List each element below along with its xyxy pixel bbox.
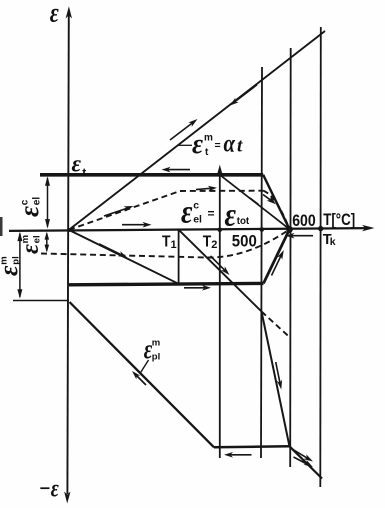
node dot at Tk: [318, 226, 323, 231]
svg-text:pl: pl: [10, 256, 21, 264]
dash arrow down-right on D1 descent: [263, 195, 276, 205]
node dot at origin: [67, 228, 71, 232]
arrow left below bottom line: [224, 452, 252, 458]
arrowhead T2-vertical top: [217, 165, 223, 176]
svg-text:m: m: [20, 235, 31, 243]
svg-text:T[°C]: T[°C]: [323, 210, 355, 229]
arrow up-left on lower-left diagonal: [132, 371, 146, 385]
svg-text:ε: ε: [17, 243, 44, 254]
steep line from junction down to bottom corner: [262, 312, 290, 447]
arrow left below axis near 600: [286, 233, 314, 239]
svg-text:1: 1: [171, 239, 177, 251]
svg-text:T: T: [203, 233, 212, 250]
node dot at T2 on axis: [218, 228, 223, 233]
svg-text:el: el: [193, 214, 202, 226]
svg-text:tot: tot: [237, 215, 250, 227]
arrowhead epsilon-axis bottom: [64, 492, 70, 504]
label epsilon_pl^m with leader: [140, 333, 160, 374]
svg-text:m: m: [204, 133, 213, 144]
svg-text:m: m: [0, 256, 10, 264]
svg-text:k: k: [330, 236, 336, 248]
arrow right above T axis: [122, 222, 152, 228]
double arrow 1 on bottom-right diagonal: [293, 450, 313, 462]
arrow down-right on line B: [99, 244, 128, 258]
arrow down on steep line: [276, 362, 282, 390]
bottom right diagonal: [290, 446, 323, 478]
svg-text:el: el: [31, 235, 42, 243]
arrow right below lower thick line: [184, 285, 211, 291]
double arrow 2 on bottom-right diagonal: [294, 457, 314, 467]
dash arrow up-right on D1: [104, 206, 134, 216]
line B origin to T1 bottom: [69, 230, 179, 284]
vertical line T1: [178, 230, 180, 284]
line A from T1 axis point down-right: [179, 230, 262, 312]
dashed D1 rising from origin: [69, 191, 264, 230]
vertical line at Tk: [319, 27, 322, 487]
dash arrow right on D1 flat: [196, 186, 217, 192]
label epsilon_t^m = alpha t with leader: [178, 128, 243, 160]
vertical line T2: [219, 171, 221, 458]
svg-text:el: el: [32, 197, 43, 206]
arrowhead epsilon-axis top: [66, 6, 72, 18]
svg-text:pl: pl: [152, 352, 160, 363]
dashed continuation of line A below junction: [262, 312, 291, 339]
dashed D1 descent curve to 600 node: [264, 191, 290, 230]
arrow left above epsilon_t line: [162, 167, 191, 173]
svg-text:600: 600: [292, 211, 316, 230]
alpha-t diagonal line: [69, 31, 325, 230]
svg-text:ε: ε: [72, 150, 82, 177]
arrowhead T-axis right: [362, 225, 375, 232]
epsilon axis: [67, 12, 68, 494]
rotated label epsilon_pl^m: [0, 256, 23, 276]
svg-text:ε: ε: [0, 265, 23, 276]
vertical line at 500: [261, 67, 262, 458]
svg-text:t: t: [82, 166, 86, 180]
arrow down-right beside line A: [211, 256, 230, 275]
node dot at 500 on axis: [260, 227, 265, 232]
svg-text:c: c: [193, 200, 199, 212]
arrow up-right on alpha-t line: [170, 119, 198, 140]
thick diagonal up to 600 node: [264, 229, 290, 283]
rotated label epsilon_el^c: [14, 197, 44, 217]
svg-text:ε: ε: [181, 195, 193, 231]
dashed D2 lower horizontal then rising to 600 node: [41, 229, 290, 257]
svg-text:t: t: [205, 147, 209, 158]
line from T2 top to 600 node: [220, 175, 290, 229]
dimension arrow epsilon_el^c: [45, 176, 50, 228]
node dot at 600: [286, 226, 293, 233]
svg-text:−ε: −ε: [39, 476, 60, 503]
svg-text:ε: ε: [14, 206, 44, 217]
dimension arrow epsilon_el^m: [45, 232, 50, 253]
svg-text:500: 500: [232, 232, 257, 251]
svg-text:T: T: [162, 233, 171, 250]
svg-text:α: α: [224, 131, 236, 158]
T axis: [9, 228, 368, 231]
svg-text:ε: ε: [225, 198, 237, 234]
dimension arrow epsilon_pl^m: [17, 232, 22, 299]
epsilon_t horizontal thick line: [40, 173, 263, 177]
tick at y=300 lower left: [13, 300, 69, 302]
svg-text:=: =: [215, 139, 221, 151]
bottom horizontal line: [214, 446, 290, 447]
lower thick horizontal line: [69, 283, 264, 284]
arrow stroke on T2-top line: [250, 198, 259, 205]
line from epsilon_t corner down to 600 node: [263, 175, 289, 229]
rotated label epsilon_el^m: [17, 235, 44, 254]
svg-text:ε: ε: [192, 128, 203, 160]
vertical line at 600-node: [289, 48, 292, 467]
svg-text:ε: ε: [50, 0, 59, 28]
svg-text:=: =: [208, 207, 215, 221]
big lower-left diagonal epsilon_pl^m: [70, 302, 215, 447]
arrow up-right on thick diagonal: [272, 250, 284, 276]
scan smudge left edge: [0, 217, 3, 236]
center label epsilon_el^c = epsilon_tot: [181, 195, 250, 234]
svg-text:2: 2: [211, 239, 217, 251]
svg-text:c: c: [19, 199, 30, 205]
svg-text:t: t: [237, 136, 243, 157]
svg-text:m: m: [152, 338, 160, 349]
arrow down-left on alpha-t line: [230, 85, 258, 106]
